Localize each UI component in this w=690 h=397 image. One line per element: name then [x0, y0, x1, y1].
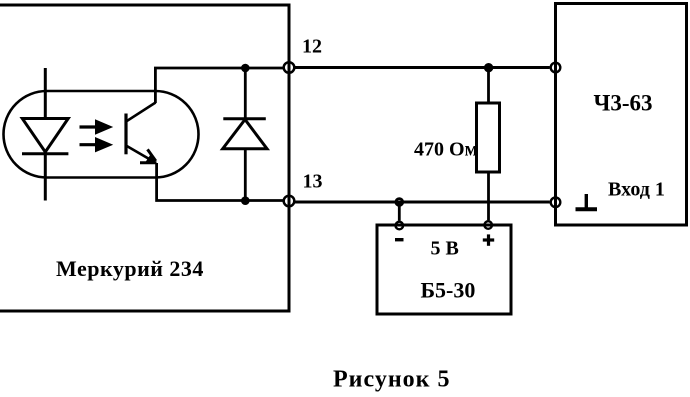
svg-text:Меркурий 234: Меркурий 234	[56, 256, 204, 281]
wire resistor top lead	[487, 68, 490, 103]
svg-text:Рисунок 5: Рисунок 5	[333, 367, 450, 393]
terminal circle at Ч3-63 input low	[551, 198, 561, 208]
terminal circle at Ч3-63 input high	[551, 63, 561, 73]
wire node to minus terminal	[398, 202, 401, 221]
frequency counter box Ч3-63	[556, 4, 687, 226]
plus sign	[483, 234, 494, 245]
svg-text:13: 13	[303, 170, 323, 192]
wire emitter to terminal 13	[157, 163, 284, 201]
node at resistor top	[485, 65, 491, 71]
wire LED anode/cathode vertical	[44, 68, 47, 201]
node on wire 13 above minus terminal	[396, 199, 403, 206]
svg-text:470 Ом: 470 Ом	[414, 139, 478, 161]
wire terminal 12 to Ч3-63	[294, 66, 549, 69]
junction dot at diode bottom	[241, 196, 250, 205]
light arrow 2	[80, 137, 114, 152]
optocoupler U1 outline	[4, 91, 199, 178]
svg-text:5 В: 5 В	[431, 238, 459, 260]
minus sign	[395, 238, 404, 241]
phototransistor emitter line with arrow	[127, 146, 157, 164]
svg-text:Вход 1: Вход 1	[608, 179, 665, 201]
power supply box Б5-30	[377, 225, 511, 314]
wire diode branch vertical	[244, 68, 247, 201]
terminal 12 circle	[284, 62, 295, 73]
junction dot at diode top	[241, 64, 250, 73]
phototransistor base bar	[124, 114, 127, 155]
LED cathode bar	[22, 152, 68, 155]
svg-text:Ч3-63: Ч3-63	[594, 91, 653, 116]
light arrow 1	[80, 119, 114, 134]
minus terminal circle	[396, 222, 404, 230]
diode VD1 cathode bar	[223, 117, 265, 120]
device box Меркурий 234 (left edge off-canvas)	[0, 5, 289, 311]
LED of optocoupler (triangle)	[22, 119, 68, 153]
phototransistor collector line	[127, 103, 156, 122]
ground symbol	[576, 194, 598, 209]
resistor R1 470 Ом body	[477, 103, 500, 172]
svg-text:Б5-30: Б5-30	[421, 278, 476, 303]
terminal 13 circle	[284, 196, 295, 207]
plus terminal circle	[484, 221, 492, 229]
wire resistor bottom lead to plus terminal	[487, 172, 490, 220]
diode VD1 triangle	[223, 120, 267, 149]
svg-text:12: 12	[302, 36, 322, 58]
wire collector to terminal 12	[155, 68, 283, 103]
wire terminal 13 to Ч3-63	[294, 201, 549, 204]
